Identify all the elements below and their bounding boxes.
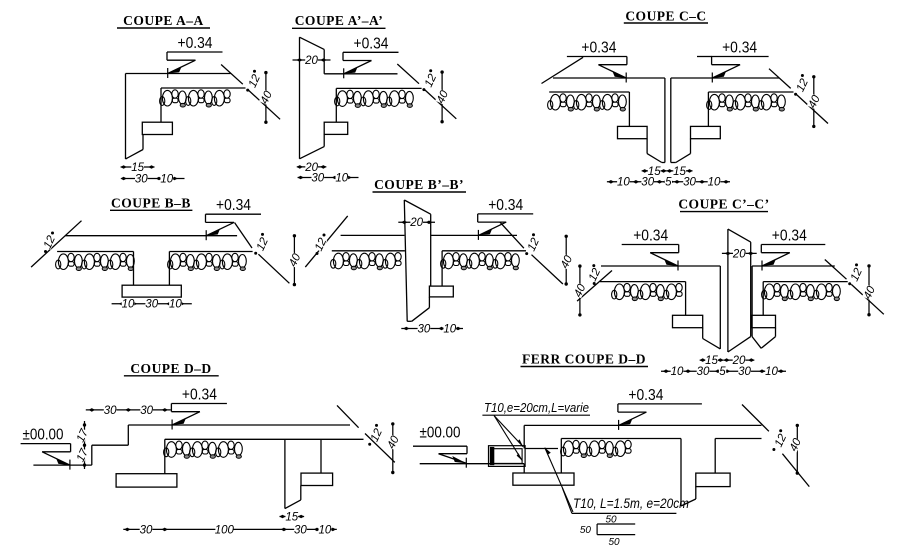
svg-text:FERR COUPE D–D: FERR COUPE D–D: [522, 352, 646, 367]
svg-text:COUPE C–C: COUPE C–C: [625, 9, 706, 24]
svg-text:+0.34: +0.34: [354, 35, 389, 52]
svg-text:+0.34: +0.34: [182, 387, 217, 404]
svg-text:10: 10: [335, 172, 348, 184]
svg-text:+0.34: +0.34: [216, 197, 251, 214]
svg-text:10: 10: [169, 299, 182, 311]
svg-text:30: 30: [738, 366, 751, 378]
svg-text:20: 20: [304, 55, 318, 67]
svg-text:+0.34: +0.34: [722, 40, 757, 57]
svg-text:50: 50: [608, 537, 620, 548]
svg-text:100: 100: [215, 524, 235, 536]
svg-text:30: 30: [294, 524, 307, 536]
svg-text:COUPE A–A: COUPE A–A: [123, 13, 204, 28]
svg-text:20: 20: [409, 217, 423, 229]
svg-text:10: 10: [122, 299, 135, 311]
svg-text:±00.00: ±00.00: [420, 425, 461, 442]
svg-text:30: 30: [145, 299, 158, 311]
svg-text:T10,e=20cm,L=varie: T10,e=20cm,L=varie: [484, 400, 589, 415]
svg-text:30: 30: [683, 177, 696, 189]
svg-text:T10, L=1.5m, e=20cm: T10, L=1.5m, e=20cm: [573, 496, 689, 511]
svg-text:30: 30: [104, 405, 117, 417]
svg-text:30: 30: [140, 524, 153, 536]
svg-text:30: 30: [697, 366, 710, 378]
svg-text:COUPE D–D: COUPE D–D: [130, 361, 211, 376]
svg-text:30: 30: [135, 173, 148, 185]
svg-text:+0.34: +0.34: [178, 35, 213, 52]
svg-text:10: 10: [160, 173, 173, 185]
svg-text:+0.34: +0.34: [581, 40, 616, 57]
svg-text:+0.34: +0.34: [628, 387, 663, 404]
svg-text:10: 10: [671, 366, 684, 378]
svg-text:5: 5: [665, 177, 672, 189]
svg-text:30: 30: [311, 172, 324, 184]
svg-text:30: 30: [641, 177, 654, 189]
svg-text:COUPE B’–B’: COUPE B’–B’: [374, 177, 464, 192]
svg-text:15: 15: [131, 162, 144, 174]
svg-text:50: 50: [580, 525, 592, 536]
svg-text:15: 15: [285, 511, 298, 523]
svg-text:COUPE C’–C’: COUPE C’–C’: [678, 197, 769, 212]
svg-text:5: 5: [719, 366, 726, 378]
svg-text:COUPE B–B: COUPE B–B: [111, 196, 191, 211]
svg-text:10: 10: [443, 323, 456, 335]
svg-text:COUPE A’–A’: COUPE A’–A’: [295, 13, 384, 28]
svg-text:30: 30: [418, 323, 431, 335]
svg-text:50: 50: [605, 515, 617, 526]
svg-text:10: 10: [617, 177, 630, 189]
svg-text:10: 10: [765, 366, 778, 378]
svg-text:+0.34: +0.34: [488, 197, 523, 214]
svg-text:+0.34: +0.34: [633, 228, 668, 245]
svg-text:10: 10: [319, 524, 332, 536]
svg-text:30: 30: [140, 405, 153, 417]
svg-text:20: 20: [732, 248, 746, 260]
svg-text:+0.34: +0.34: [772, 228, 807, 245]
svg-text:10: 10: [708, 177, 721, 189]
svg-text:±00.00: ±00.00: [23, 427, 64, 444]
